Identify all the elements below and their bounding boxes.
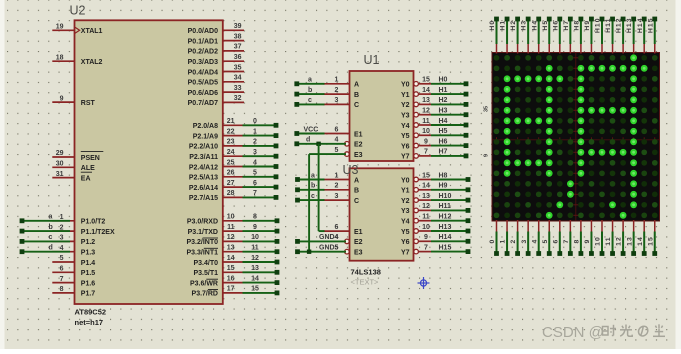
svg-text:P3.1/TXD: P3.1/TXD xyxy=(188,229,218,236)
terminal net 3 bottom xyxy=(526,251,531,256)
wire net H12 xyxy=(431,220,468,222)
svg-text:7: 7 xyxy=(253,190,257,197)
wire net H7 xyxy=(431,155,466,157)
matrix bottom pin column 12 xyxy=(622,220,624,232)
svg-text:<TEXT>: <TEXT> xyxy=(351,278,380,287)
svg-text:a: a xyxy=(308,77,312,84)
svg-text:13: 13 xyxy=(626,236,633,246)
svg-text:E1: E1 xyxy=(354,131,363,138)
svg-text:8: 8 xyxy=(60,286,64,293)
wire net H11 xyxy=(431,209,468,211)
svg-text:P1.7: P1.7 xyxy=(81,291,96,298)
terminal H6 xyxy=(557,17,562,22)
wire net 14 bottom xyxy=(643,232,645,252)
wire net H1 xyxy=(431,93,466,95)
wire net 6 from P2.6 xyxy=(243,186,277,188)
terminal net 14 bottom xyxy=(642,251,647,256)
svg-text:A: A xyxy=(354,82,359,89)
svg-text:P3.6/WR: P3.6/WR xyxy=(190,280,218,287)
svg-text:P0.0/AD0: P0.0/AD0 xyxy=(188,28,218,35)
U2 pin 3 P1.2 xyxy=(52,235,95,247)
svg-text:H0: H0 xyxy=(439,77,448,84)
junction terminal net 8 xyxy=(275,218,280,223)
wire net H12 top xyxy=(622,21,624,44)
terminal net 2 bottom xyxy=(515,251,520,256)
svg-text:5: 5 xyxy=(253,170,257,177)
svg-text:25: 25 xyxy=(227,159,235,166)
svg-text:1: 1 xyxy=(500,239,507,244)
svg-text:P2.6/A14: P2.6/A14 xyxy=(189,185,218,192)
terminal a (U1) xyxy=(294,81,299,86)
svg-text:GND5: GND5 xyxy=(319,245,339,252)
matrix bottom pin column 13 xyxy=(633,220,635,232)
svg-text:H15: H15 xyxy=(647,17,654,33)
svg-text:14: 14 xyxy=(251,275,259,282)
svg-text:2: 2 xyxy=(253,139,257,146)
junction GND net at U3 E3 xyxy=(307,250,311,254)
svg-text:15: 15 xyxy=(422,77,430,84)
wire net 15 bottom xyxy=(654,232,656,252)
svg-text:P0.5/AD5: P0.5/AD5 xyxy=(188,80,218,87)
svg-text:9: 9 xyxy=(60,95,64,102)
U2 pin 26 P2.5/A13 xyxy=(189,170,243,182)
svg-text:AT89C52: AT89C52 xyxy=(75,308,107,317)
IC U1 74LS138 body xyxy=(350,71,414,161)
junction terminal net 11 xyxy=(275,249,280,254)
terminal H8 xyxy=(579,17,584,22)
svg-text:P1.2: P1.2 xyxy=(81,239,96,246)
wire net H4 xyxy=(431,124,466,126)
terminal H12 xyxy=(621,17,626,22)
terminal net H1 xyxy=(464,92,469,97)
svg-text:12: 12 xyxy=(422,203,430,210)
wire net d to U1 E2 xyxy=(297,143,346,145)
wire net H5 top xyxy=(548,21,550,44)
svg-text:CSDN @: CSDN @ xyxy=(542,324,604,341)
svg-text:P2.7/A15: P2.7/A15 xyxy=(189,195,218,202)
svg-text:Y0: Y0 xyxy=(401,177,410,184)
terminal H10 xyxy=(600,17,605,22)
svg-text:5: 5 xyxy=(542,239,549,244)
terminal net 12 bottom xyxy=(621,251,626,256)
svg-text:18: 18 xyxy=(56,54,64,61)
wire net 10 from P3.2 xyxy=(243,240,278,242)
wire net 10 bottom xyxy=(601,232,603,252)
U1 pin 7 output Y7 xyxy=(401,149,431,161)
terminal net H10 xyxy=(466,198,471,203)
svg-text:6: 6 xyxy=(335,224,339,231)
IC U3 74LS138 body xyxy=(350,168,414,260)
svg-text:11: 11 xyxy=(251,245,259,252)
U2 pin 34 P0.5/AD5 xyxy=(188,75,244,87)
matrix bottom pin column 9 xyxy=(590,220,592,232)
svg-text:11: 11 xyxy=(605,236,612,245)
svg-text:5: 5 xyxy=(335,147,339,154)
U2 pin 35 P0.4/AD4 xyxy=(188,64,244,76)
svg-text:4: 4 xyxy=(531,239,538,244)
svg-text:P0.4/AD4: P0.4/AD4 xyxy=(188,69,218,76)
terminal net H4 xyxy=(464,123,469,128)
terminal net H9 xyxy=(466,187,471,192)
terminal net H5 xyxy=(464,133,469,138)
wire net H15 xyxy=(431,251,468,253)
wire GND net from U1 E3 xyxy=(309,153,346,155)
terminal net H6 xyxy=(464,143,469,148)
terminal net 8 bottom xyxy=(579,251,584,256)
junction terminal net 13 xyxy=(275,270,280,275)
matrix top pin column 15 xyxy=(654,44,656,54)
svg-text:C: C xyxy=(354,198,359,205)
U3 pin 12 output Y3 xyxy=(401,203,431,215)
terminal H4 xyxy=(536,17,541,22)
svg-text:P1.5: P1.5 xyxy=(81,270,96,277)
terminal H11 xyxy=(610,17,615,22)
svg-text:Y5: Y5 xyxy=(401,229,410,236)
svg-text:0: 0 xyxy=(489,239,496,244)
svg-text:7: 7 xyxy=(424,149,428,156)
matrix bottom pin column 4 xyxy=(538,220,540,232)
wire net H13 top xyxy=(633,21,635,44)
junction net d xyxy=(316,142,320,146)
wire ground GND to U3 E2 xyxy=(298,240,347,242)
terminal H3 xyxy=(526,17,531,22)
svg-text:H5: H5 xyxy=(439,128,448,135)
wire net 12 from P3.4 xyxy=(243,261,278,263)
svg-text:28: 28 xyxy=(227,190,235,197)
svg-text:E1: E1 xyxy=(354,229,363,236)
U1 pin 9 output Y6 xyxy=(401,138,431,150)
svg-text:H11: H11 xyxy=(439,203,452,210)
svg-text:H9: H9 xyxy=(439,183,448,190)
wire net 11 from P3.3 xyxy=(243,251,278,253)
svg-text:17: 17 xyxy=(227,286,235,293)
U2 pin 36 P0.3/AD3 xyxy=(188,54,244,66)
svg-text:24: 24 xyxy=(227,149,235,156)
U3 pin 5 enable E3 (active low) xyxy=(335,245,363,257)
junction terminal net 1 xyxy=(274,133,279,138)
junction terminal net 12 xyxy=(275,260,280,265)
svg-text:39: 39 xyxy=(234,23,242,30)
matrix bottom pin column 3 xyxy=(527,220,529,232)
U1 pin 2 input B xyxy=(324,87,360,99)
svg-text:H11: H11 xyxy=(605,17,612,32)
matrix bottom pin column 10 xyxy=(601,220,603,232)
U2 pin 19 XTAL1 xyxy=(52,24,102,36)
U2 pin 11 P3.1/TXD xyxy=(188,224,243,236)
U1 pin 6 enable E1 xyxy=(324,126,363,138)
svg-text:21: 21 xyxy=(227,118,235,125)
U1 pin 12 output Y3 xyxy=(401,108,431,120)
terminal net H3 xyxy=(464,112,469,117)
matrix top pin column 2 xyxy=(517,44,519,54)
svg-text:7: 7 xyxy=(424,244,428,251)
wire net H10 top xyxy=(601,21,603,44)
wire net H6 top xyxy=(559,21,561,44)
svg-text:d: d xyxy=(306,137,310,144)
svg-text:11: 11 xyxy=(227,224,235,231)
wire net 12 bottom xyxy=(622,232,624,252)
matrix bottom pin column 15 xyxy=(654,220,656,232)
junction terminal net 4 xyxy=(274,164,279,169)
svg-text:a: a xyxy=(49,214,53,221)
wire net H1 top xyxy=(506,21,508,44)
svg-text:3: 3 xyxy=(521,239,528,244)
svg-text:11: 11 xyxy=(422,214,430,221)
wire net 13 from P3.5 xyxy=(243,271,278,273)
svg-text:1: 1 xyxy=(335,77,339,84)
svg-text:Y6: Y6 xyxy=(401,143,410,150)
junction terminal net 14 xyxy=(275,280,280,285)
svg-text:P2.2/A10: P2.2/A10 xyxy=(189,144,218,151)
svg-text:35: 35 xyxy=(484,106,490,112)
terminal H7 xyxy=(568,17,573,22)
U3 pin 6 enable E1 xyxy=(324,224,363,236)
svg-text:H10: H10 xyxy=(595,17,602,33)
junction terminal net 7 xyxy=(274,195,279,200)
wire net 6 bottom xyxy=(559,232,561,252)
matrix top pin column 10 xyxy=(601,44,603,54)
wire net H2 xyxy=(431,103,466,105)
svg-text:d: d xyxy=(49,245,53,252)
U3 pin 14 output Y1 xyxy=(401,183,431,195)
svg-text:P2.5/A13: P2.5/A13 xyxy=(189,175,218,182)
wire net 4 from P2.4 xyxy=(243,166,277,168)
wire net H7 top xyxy=(569,21,571,44)
svg-text:1: 1 xyxy=(253,128,257,135)
svg-text:GND4: GND4 xyxy=(319,234,339,241)
svg-text:10: 10 xyxy=(227,214,235,221)
svg-text:7: 7 xyxy=(60,276,64,283)
wire net 11 bottom xyxy=(612,232,614,252)
U2 pin 1 P1.0/T2 xyxy=(52,214,105,226)
svg-text:H3: H3 xyxy=(439,108,448,115)
wire net H14 top xyxy=(643,21,645,44)
wire net 2 from P2.2 xyxy=(243,145,277,147)
U1 pin 1 input A xyxy=(324,77,360,89)
wire net H10 xyxy=(431,199,468,201)
matrix top pin column 8 xyxy=(580,44,582,54)
terminal H14 xyxy=(642,17,647,22)
terminal VCC xyxy=(294,131,299,136)
U2 pin 33 P0.6/AD6 xyxy=(188,85,244,97)
svg-text:13: 13 xyxy=(251,265,259,272)
terminal net H2 xyxy=(464,102,469,107)
U2 pin 14 P3.4/T0 xyxy=(193,255,242,267)
svg-text:a: a xyxy=(311,172,315,179)
svg-text:74LS138: 74LS138 xyxy=(351,268,381,277)
wire net 3 from P2.3 xyxy=(243,155,277,157)
matrix top pin column 4 xyxy=(538,44,540,54)
svg-text:6: 6 xyxy=(253,180,257,187)
svg-text:H12: H12 xyxy=(616,17,623,33)
wire net 14 from P3.6 xyxy=(243,282,278,284)
svg-text:10: 10 xyxy=(422,224,430,231)
U2 pin 8 P1.7 xyxy=(52,286,95,298)
matrix bottom pin column 8 xyxy=(580,220,582,232)
U2 pin 12 P3.2/INT0 xyxy=(186,234,242,246)
U2 pin 16 P3.6/WR xyxy=(190,275,243,287)
terminal net 1 bottom xyxy=(505,251,510,256)
terminal net 7 bottom xyxy=(568,251,573,256)
wire net 7 bottom xyxy=(569,232,571,252)
U2 pin 5 P1.4 xyxy=(52,255,95,267)
U2 pin 2 P1.1/T2EX xyxy=(52,224,115,236)
junction terminal net 5 xyxy=(274,174,279,179)
svg-text:Y6: Y6 xyxy=(401,239,410,246)
terminal a xyxy=(20,218,25,223)
wire net 13 bottom xyxy=(633,232,635,252)
U2 pin 25 P2.4/A12 xyxy=(189,159,243,171)
wire net a to U2 P1.0 xyxy=(22,220,70,222)
U2 pin 39 P0.0/AD0 xyxy=(188,23,244,35)
terminal net 5 bottom xyxy=(547,251,552,256)
wire net H8 top xyxy=(580,21,582,44)
svg-text:16: 16 xyxy=(227,275,235,282)
U2 pin 15 P3.5/T1 xyxy=(193,265,242,277)
U3 pin 13 output Y2 xyxy=(401,193,431,205)
watermark glyph no xyxy=(638,326,647,336)
U2 pin 9 RST xyxy=(52,95,95,107)
svg-text:EA: EA xyxy=(81,175,91,182)
svg-text:14: 14 xyxy=(637,236,644,246)
svg-text:H15: H15 xyxy=(439,244,452,251)
terminal b (U3) xyxy=(295,187,300,192)
junction terminal net 6 xyxy=(274,185,279,190)
svg-text:P1.4: P1.4 xyxy=(81,260,96,267)
wire net a to U3 xyxy=(298,179,325,181)
matrix bottom pin column 0 xyxy=(496,220,498,232)
svg-text:Y1: Y1 xyxy=(401,92,410,99)
U2 pin 30 ALE xyxy=(52,161,95,173)
matrix top pin column 1 xyxy=(506,44,508,54)
matrix top pin column 5 xyxy=(548,44,550,54)
wire net 3 bottom xyxy=(527,232,529,252)
U3 pin 2 input B xyxy=(324,183,360,195)
watermark glyph guang xyxy=(620,325,632,337)
U1 pin 3 input C xyxy=(324,97,360,109)
svg-text:Y2: Y2 xyxy=(401,102,410,109)
svg-text:Y7: Y7 xyxy=(401,249,410,256)
U3 pin 10 output Y5 xyxy=(401,224,431,236)
svg-text:H12: H12 xyxy=(439,214,452,221)
terminal H0 xyxy=(494,17,499,22)
svg-text:9: 9 xyxy=(584,239,591,244)
svg-text:14: 14 xyxy=(422,183,430,190)
terminal net 4 bottom xyxy=(536,251,541,256)
terminal net 11 bottom xyxy=(610,251,615,256)
power terminal VCC wire xyxy=(297,133,325,135)
terminal d xyxy=(294,141,299,146)
svg-text:H6: H6 xyxy=(552,20,559,31)
terminal H9 xyxy=(589,17,594,22)
svg-text:P3.2/INT0: P3.2/INT0 xyxy=(186,239,218,246)
terminal net H11 xyxy=(466,208,471,213)
matrix bottom pin column 7 xyxy=(569,220,571,232)
svg-text:P1.3: P1.3 xyxy=(81,250,96,257)
wire GND net vertical U1 E3 to U3 E3 xyxy=(308,154,310,252)
matrix top pin column 7 xyxy=(569,44,571,54)
terminal c (U1) xyxy=(294,102,299,107)
svg-text:1: 1 xyxy=(335,172,339,179)
wire net b to U2 P1.1 xyxy=(22,230,70,232)
svg-text:29: 29 xyxy=(56,150,64,157)
wire net H9 xyxy=(431,189,468,191)
svg-text:P3.4/T0: P3.4/T0 xyxy=(193,260,218,267)
U2 pin 28 P2.7/A15 xyxy=(189,190,243,202)
svg-text:9: 9 xyxy=(484,154,490,157)
wire net 8 bottom xyxy=(580,232,582,252)
svg-text:35: 35 xyxy=(234,64,242,71)
wire ground GND to U3 E3 xyxy=(298,251,347,253)
svg-text:12: 12 xyxy=(422,108,430,115)
svg-text:P1.0/T2: P1.0/T2 xyxy=(81,219,106,226)
svg-text:U1: U1 xyxy=(364,53,380,67)
svg-text:P2.1/A9: P2.1/A9 xyxy=(193,133,218,140)
svg-text:H1: H1 xyxy=(439,87,448,94)
svg-text:34: 34 xyxy=(234,75,242,82)
svg-text:ALE: ALE xyxy=(81,165,95,172)
terminal net 10 bottom xyxy=(600,251,605,256)
wire net 7 from P2.7 xyxy=(243,196,277,198)
svg-text:22: 22 xyxy=(227,128,235,135)
terminal net 0 bottom xyxy=(494,251,499,256)
svg-text:P3.3/INT1: P3.3/INT1 xyxy=(186,250,218,257)
svg-text:8: 8 xyxy=(574,239,581,244)
svg-text:3: 3 xyxy=(335,193,339,200)
wire net 1 from P2.1 xyxy=(243,135,277,137)
wire net 0 bottom xyxy=(496,232,498,252)
matrix bottom pin column 5 xyxy=(548,220,550,232)
U2 pin 6 P1.5 xyxy=(52,266,95,278)
svg-text:11: 11 xyxy=(422,118,430,125)
svg-text:Y4: Y4 xyxy=(401,123,410,130)
svg-text:P3.5/T1: P3.5/T1 xyxy=(193,270,218,277)
wire net H5 xyxy=(431,134,466,136)
U2 pin 21 P2.0/A8 xyxy=(193,118,243,130)
svg-text:Y1: Y1 xyxy=(401,188,410,195)
matrix inter-module pin stubs xyxy=(497,58,655,216)
svg-text:10: 10 xyxy=(422,128,430,135)
wire net H0 top xyxy=(496,21,498,44)
U2 pin 10 P3.0/RXD xyxy=(187,214,243,226)
svg-text:U2: U2 xyxy=(70,4,86,18)
svg-text:6: 6 xyxy=(552,239,559,244)
terminal c xyxy=(20,239,25,244)
matrix bottom pin column 14 xyxy=(643,220,645,232)
U3 pin 4 enable E2 (active low) xyxy=(335,234,363,246)
matrix top pin column 3 xyxy=(527,44,529,54)
matrix LED dots xyxy=(494,54,658,218)
svg-text:3: 3 xyxy=(253,149,257,156)
svg-text:15: 15 xyxy=(251,286,259,293)
svg-text:A: A xyxy=(354,177,359,184)
U1 pin 4 enable E2 (active low) xyxy=(335,137,363,149)
wire net c to U1 xyxy=(297,103,325,105)
svg-text:10: 10 xyxy=(595,236,602,246)
svg-text:H9: H9 xyxy=(584,20,591,31)
svg-text:Y3: Y3 xyxy=(401,208,410,215)
matrix module seam horizontal xyxy=(492,139,660,141)
svg-text:13: 13 xyxy=(227,245,235,252)
wire net d vertical to U3 E1 xyxy=(318,144,320,231)
terminal net H12 xyxy=(466,218,471,223)
wire net 2 bottom xyxy=(517,232,519,252)
U3 pin 9 output Y6 xyxy=(401,234,431,246)
U2 pin 4 P1.3 xyxy=(52,245,95,257)
svg-text:b: b xyxy=(311,183,315,190)
U1 pin 14 output Y1 xyxy=(401,87,431,99)
U2 pin 7 P1.6 xyxy=(52,276,95,288)
